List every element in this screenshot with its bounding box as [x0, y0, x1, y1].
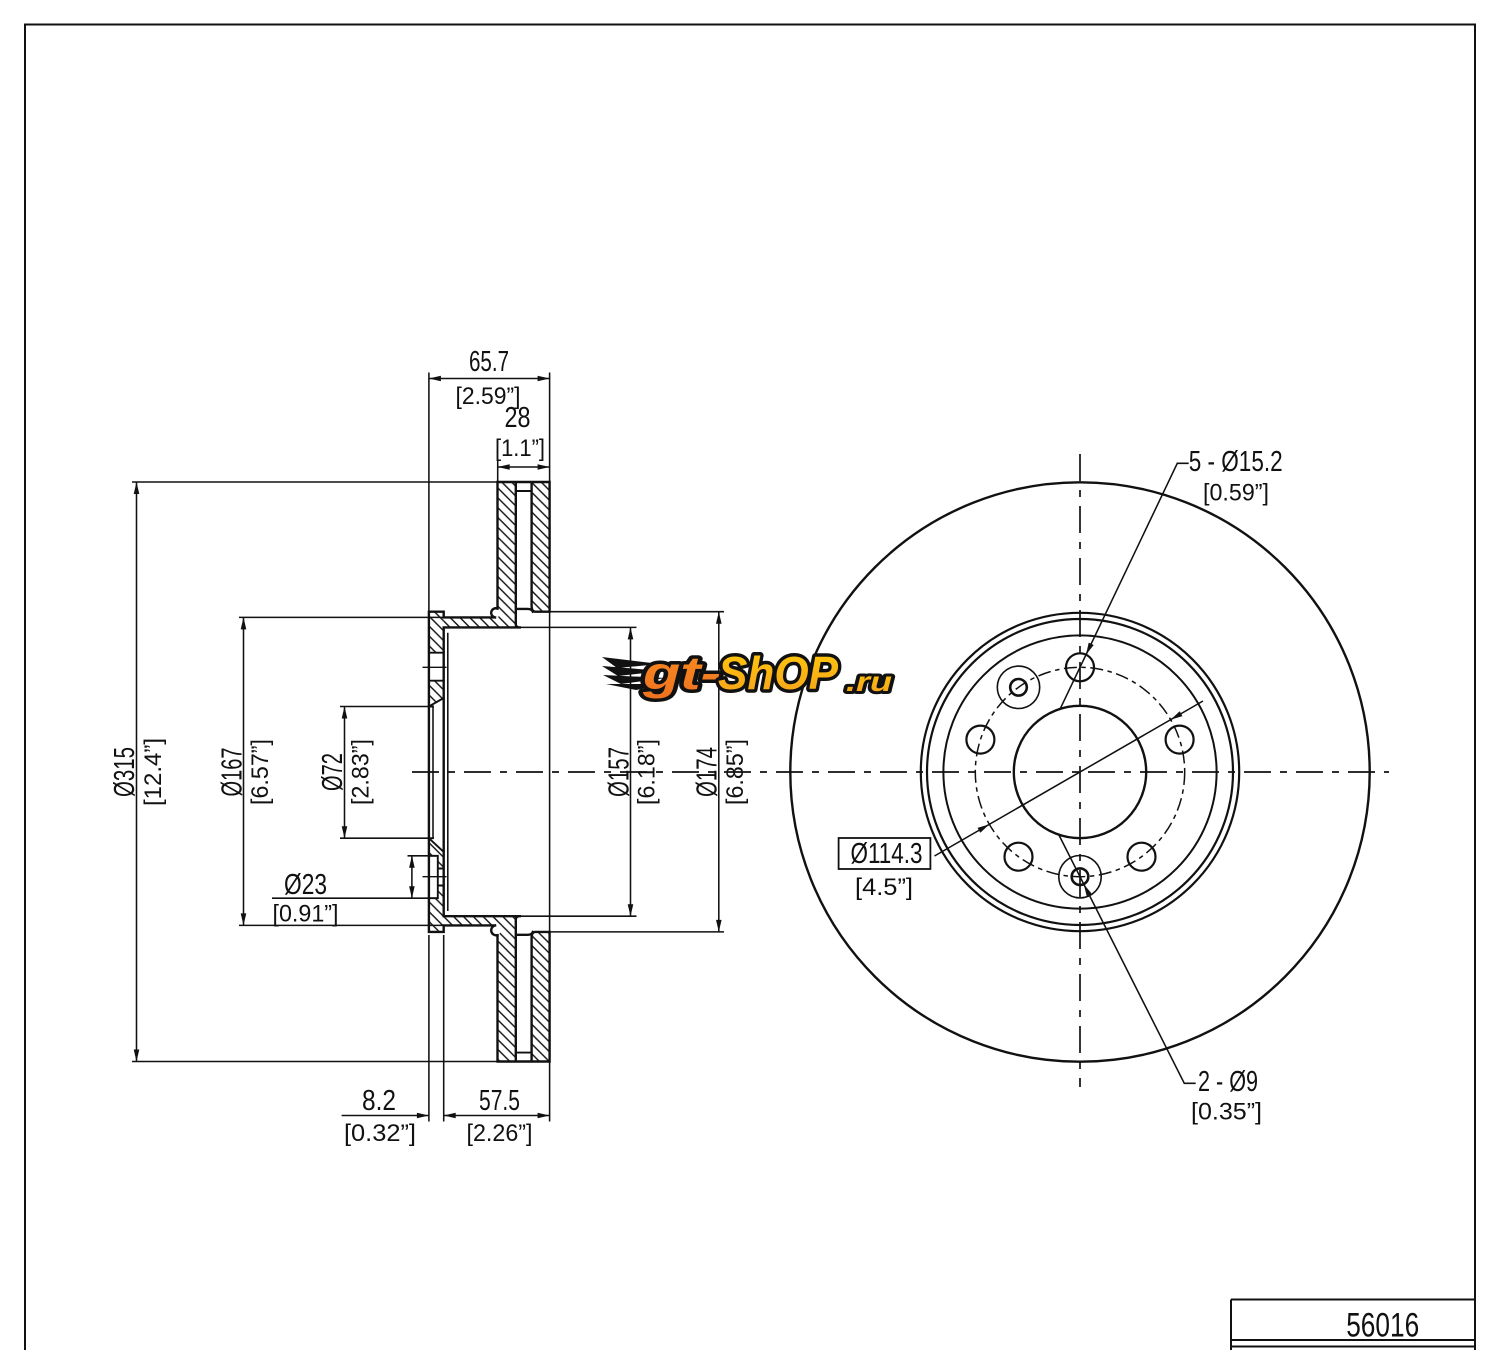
- svg-text:Ø23: Ø23: [284, 869, 327, 901]
- svg-text:Ø114.3: Ø114.3: [851, 838, 923, 870]
- svg-text:[4.5”]: [4.5”]: [855, 874, 913, 901]
- svg-text:Ø157: Ø157: [604, 747, 636, 797]
- svg-text:[0.35”]: [0.35”]: [1191, 1099, 1262, 1126]
- svg-text:65.7: 65.7: [469, 346, 509, 378]
- svg-text:2 - Ø9: 2 - Ø9: [1198, 1066, 1258, 1098]
- svg-text:.ru: .ru: [846, 666, 892, 697]
- svg-text:[12.4”]: [12.4”]: [140, 738, 167, 806]
- svg-text:Ø167: Ø167: [217, 748, 249, 797]
- svg-text:[2.26”]: [2.26”]: [467, 1120, 533, 1147]
- svg-text:[1.1”]: [1.1”]: [495, 435, 545, 462]
- svg-text:28: 28: [505, 402, 531, 434]
- svg-text:Ø174: Ø174: [692, 747, 724, 797]
- svg-text:[0.59”]: [0.59”]: [1203, 480, 1269, 507]
- svg-text:[2.83”]: [2.83”]: [348, 739, 375, 805]
- svg-text:[6.85”]: [6.85”]: [722, 739, 749, 805]
- svg-text:[6.57”]: [6.57”]: [247, 739, 274, 805]
- svg-text:ShOP: ShOP: [718, 647, 838, 699]
- svg-text:[0.91”]: [0.91”]: [273, 901, 339, 928]
- svg-text:gt-: gt-: [642, 647, 721, 699]
- svg-text:[6.18”]: [6.18”]: [634, 739, 661, 805]
- svg-text:56016: 56016: [1346, 1307, 1419, 1345]
- svg-text:57.5: 57.5: [479, 1085, 520, 1117]
- svg-text:Ø315: Ø315: [109, 747, 141, 797]
- svg-text:8.2: 8.2: [362, 1085, 396, 1117]
- svg-text:5 - Ø15.2: 5 - Ø15.2: [1189, 446, 1283, 478]
- svg-text:Ø72: Ø72: [317, 753, 349, 791]
- svg-text:[0.32”]: [0.32”]: [344, 1120, 416, 1147]
